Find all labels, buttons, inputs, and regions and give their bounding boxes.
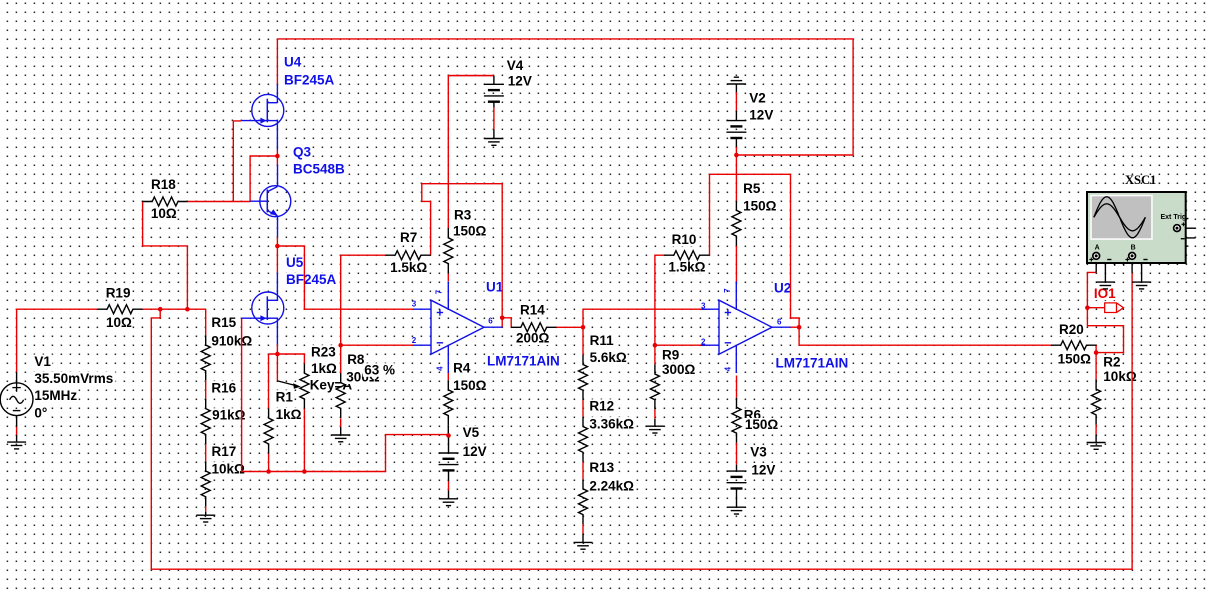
svg-text:1.5kΩ: 1.5kΩ — [390, 260, 427, 275]
svg-text:R11: R11 — [590, 333, 615, 348]
svg-text:XSC1: XSC1 — [1125, 173, 1156, 187]
svg-text:V1: V1 — [34, 354, 51, 369]
svg-text:R7: R7 — [400, 230, 417, 245]
svg-text:R2: R2 — [1103, 354, 1120, 369]
svg-text:7: 7 — [723, 288, 732, 293]
svg-text:2.24kΩ: 2.24kΩ — [589, 479, 634, 494]
svg-text:R1: R1 — [276, 389, 294, 404]
svg-text:BF245A: BF245A — [286, 272, 337, 287]
svg-text:R14: R14 — [520, 303, 545, 318]
svg-text:3.36kΩ: 3.36kΩ — [589, 416, 634, 431]
svg-text:R8: R8 — [347, 352, 365, 367]
svg-text:IO1: IO1 — [1094, 286, 1116, 301]
svg-text:V5: V5 — [463, 425, 480, 440]
svg-text:R13: R13 — [589, 460, 614, 475]
svg-text:1kΩ: 1kΩ — [276, 407, 302, 422]
svg-text:4: 4 — [724, 366, 733, 371]
svg-text:300Ω: 300Ω — [662, 362, 696, 377]
svg-text:R15: R15 — [211, 315, 236, 330]
svg-text:150Ω: 150Ω — [453, 378, 487, 393]
svg-text:V4: V4 — [507, 58, 524, 73]
svg-text:15MHz: 15MHz — [34, 388, 77, 403]
svg-text:BC548B: BC548B — [293, 162, 345, 177]
svg-text:910kΩ: 910kΩ — [211, 333, 252, 348]
svg-text:U1: U1 — [486, 280, 504, 295]
svg-text:R4: R4 — [453, 360, 471, 375]
svg-text:R18: R18 — [151, 177, 176, 192]
svg-text:10kΩ: 10kΩ — [212, 461, 246, 476]
svg-text:150Ω: 150Ω — [743, 199, 777, 214]
svg-text:12V: 12V — [463, 444, 487, 459]
svg-text:R12: R12 — [589, 399, 614, 414]
svg-text:10Ω: 10Ω — [151, 206, 177, 221]
svg-text:R23: R23 — [311, 344, 336, 359]
svg-text:0°: 0° — [34, 405, 47, 420]
svg-text:V2: V2 — [749, 91, 766, 106]
svg-text:A: A — [1095, 245, 1100, 252]
svg-text:R10: R10 — [672, 232, 697, 247]
svg-text:R19: R19 — [106, 285, 131, 300]
svg-text:LM7171AIN: LM7171AIN — [487, 354, 560, 369]
svg-text:BF245A: BF245A — [284, 73, 335, 88]
svg-text:R17: R17 — [212, 444, 237, 459]
svg-text:150Ω: 150Ω — [1058, 352, 1092, 367]
svg-text:Q3: Q3 — [293, 145, 312, 160]
svg-text:Ext Trig: Ext Trig — [1161, 214, 1187, 221]
svg-text:4: 4 — [435, 366, 444, 371]
svg-text:7: 7 — [435, 289, 444, 294]
svg-text:1.5kΩ: 1.5kΩ — [668, 260, 705, 275]
svg-text:R9: R9 — [662, 348, 679, 363]
svg-text:U2: U2 — [774, 280, 791, 295]
svg-text:12V: 12V — [508, 74, 532, 89]
svg-text:150Ω: 150Ω — [745, 417, 779, 432]
svg-text:R3: R3 — [454, 208, 472, 223]
svg-text:6: 6 — [488, 316, 493, 325]
svg-text:3: 3 — [701, 302, 706, 311]
svg-text:U5: U5 — [286, 255, 304, 270]
svg-text:B: B — [1131, 245, 1136, 252]
svg-text:3: 3 — [412, 300, 417, 309]
svg-text:150Ω: 150Ω — [453, 224, 487, 239]
svg-text:V3: V3 — [750, 445, 767, 460]
svg-text:6: 6 — [777, 318, 782, 327]
svg-text:12V: 12V — [749, 108, 773, 123]
svg-text:1kΩ: 1kΩ — [311, 361, 337, 376]
svg-text:2: 2 — [701, 337, 706, 346]
svg-text:R20: R20 — [1059, 322, 1084, 337]
svg-text:2: 2 — [412, 336, 417, 345]
svg-text:LM7171AIN: LM7171AIN — [776, 356, 849, 371]
svg-text:12V: 12V — [751, 462, 775, 477]
svg-text:35.50mVrms: 35.50mVrms — [34, 371, 113, 386]
svg-text:10Ω: 10Ω — [106, 315, 132, 330]
svg-text:U4: U4 — [284, 55, 302, 70]
svg-text:R16: R16 — [211, 380, 236, 395]
svg-text:63 %: 63 % — [364, 363, 395, 378]
svg-text:91kΩ: 91kΩ — [212, 408, 246, 423]
svg-text:5.6kΩ: 5.6kΩ — [590, 350, 627, 365]
svg-text:R5: R5 — [743, 181, 761, 196]
